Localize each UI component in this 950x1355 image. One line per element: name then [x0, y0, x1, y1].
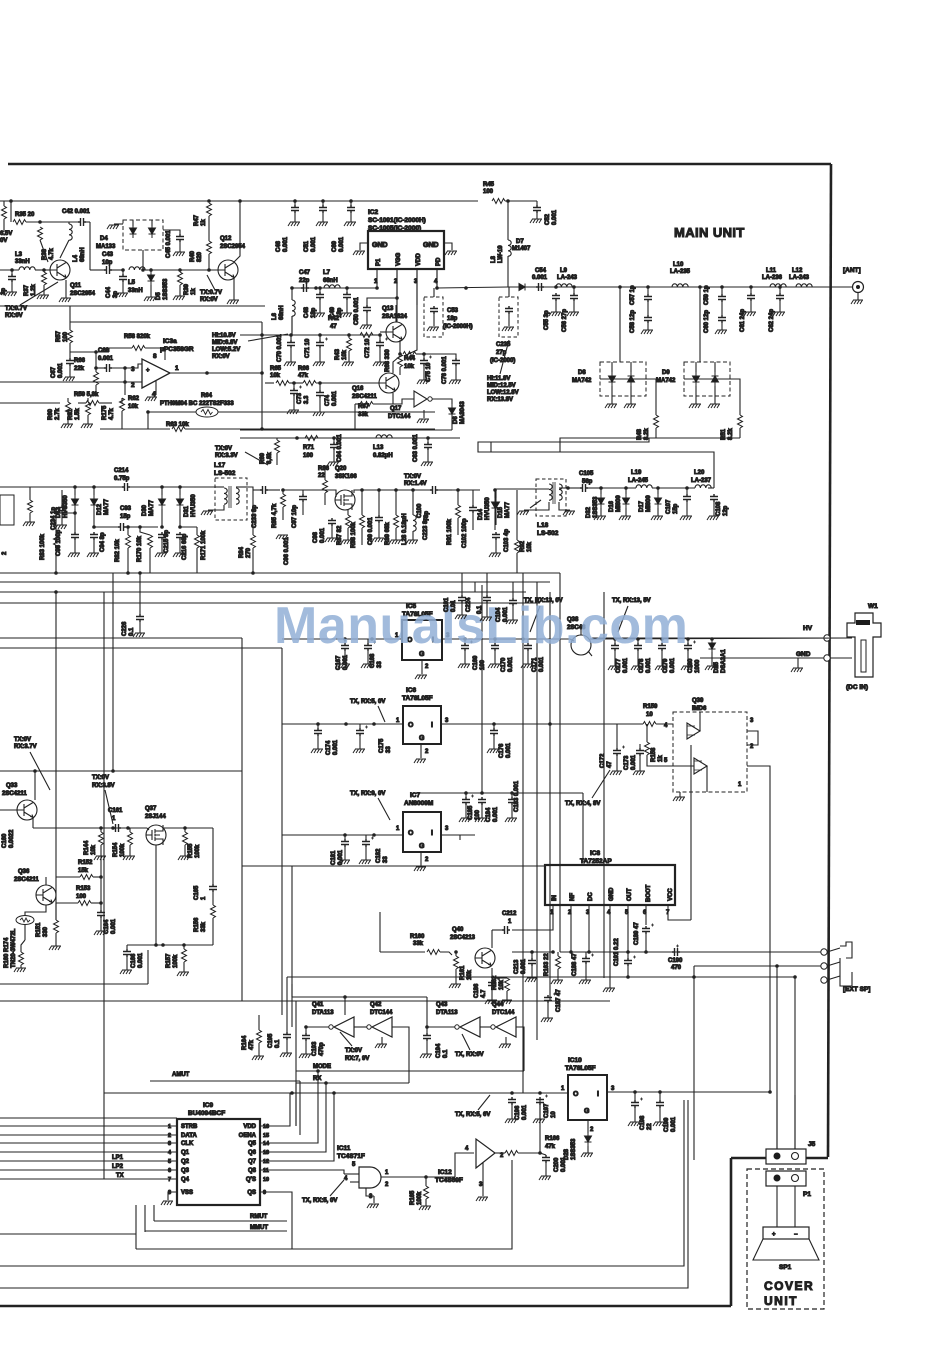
svg-text:R163 22: R163 22: [544, 953, 550, 976]
wire x292 vert: [291, 866, 293, 997]
svg-text:MA77: MA77: [104, 498, 110, 515]
svg-text:HV: HV: [803, 625, 813, 632]
svg-text:1k: 1k: [201, 219, 207, 226]
svg-text:C104: C104: [496, 607, 502, 622]
svg-text:3: 3: [479, 1182, 483, 1188]
wire d8 drop: [619, 287, 621, 362]
ground Q12 emitter: [227, 300, 239, 304]
wire rail y201 left: [0, 200, 277, 202]
svg-text:J5: J5: [808, 1141, 816, 1148]
svg-text:C97 10p: C97 10p: [292, 505, 298, 528]
svg-text:L8: L8: [491, 255, 497, 263]
svg-text:47k: 47k: [545, 1144, 556, 1150]
svg-text:12p: 12p: [723, 505, 729, 516]
svg-text:MAIN UNIT: MAIN UNIT: [674, 225, 745, 240]
svg-text:C169: C169: [473, 655, 479, 670]
svg-text:1: 1: [508, 919, 512, 925]
svg-text:PTH9M04 BC 222TS2F333: PTH9M04 BC 222TS2F333: [160, 401, 234, 407]
wire rail y438: [240, 437, 460, 439]
ground d8 b: [624, 404, 636, 408]
wire x770 vert: [769, 790, 771, 1092]
svg-text:10k: 10k: [342, 349, 348, 360]
svg-text:RX: RX: [313, 1076, 321, 1082]
svg-text:Q4: Q4: [181, 1177, 190, 1183]
connector GND pad: [824, 655, 830, 661]
svg-text:R175: R175: [102, 405, 108, 420]
wire q42 out: [392, 1027, 409, 1083]
svg-text:15p: 15p: [120, 514, 131, 520]
svg-text:MI809: MI809: [646, 495, 652, 512]
svg-text:LS-502: LS-502: [214, 470, 236, 477]
svg-text:1: 1: [396, 718, 400, 724]
svg-text:C43: C43: [102, 252, 114, 258]
svg-text:5: 5: [352, 1162, 356, 1168]
svg-text:10k: 10k: [91, 844, 97, 855]
svg-text:Q42: Q42: [370, 1002, 382, 1008]
svg-text:C181: C181: [331, 850, 337, 865]
wire base q12: [148, 269, 218, 271]
wire ic7 out: [441, 834, 475, 836]
svg-text:TX: TX: [116, 1173, 124, 1179]
svg-text:HI:11.8V: HI:11.8V: [487, 376, 510, 382]
svg-text:47: 47: [607, 761, 613, 768]
svg-text:C188 47: C188 47: [572, 953, 578, 976]
wire ic6 row: [282, 723, 403, 725]
svg-text:DTC144: DTC144: [492, 1010, 515, 1016]
wire ic9 lp inputs: [0, 1160, 177, 1162]
svg-text:6: 6: [168, 1168, 171, 1174]
svg-text:LA-243: LA-243: [789, 275, 810, 281]
svg-text:C101: C101: [444, 597, 450, 612]
svg-text:C48: C48: [304, 306, 310, 318]
svg-text:Q6: Q6: [248, 1150, 257, 1156]
svg-text:C193: C193: [312, 1041, 318, 1056]
svg-text:13: 13: [263, 1150, 269, 1156]
svg-text:C59 1p: C59 1p: [704, 285, 710, 305]
svg-text:Q40: Q40: [452, 927, 464, 933]
wire rail y638b: [0, 637, 242, 639]
svg-text:R151: R151: [36, 922, 42, 937]
wire Q12 collector: [234, 201, 240, 262]
svg-text:1000: 1000: [695, 659, 701, 673]
svg-text:R154: R154: [113, 842, 119, 857]
svg-text:100k: 100k: [417, 1191, 423, 1205]
svg-text:+: +: [772, 1232, 776, 1238]
svg-text:MID:6.8V: MID:6.8V: [212, 340, 237, 346]
svg-text:LS-502: LS-502: [537, 530, 559, 537]
svg-text:R83 100k: R83 100k: [40, 533, 46, 560]
wire r165 node: [425, 1177, 427, 1186]
svg-text:L18: L18: [537, 522, 549, 529]
svg-text:9: 9: [263, 1190, 266, 1196]
svg-text:TX:0V: TX:0V: [92, 775, 109, 781]
svg-text:C213: C213: [514, 959, 520, 974]
svg-text:R160 R174: R160 R174: [4, 937, 10, 968]
svg-text:TA78L05F: TA78L05F: [565, 1065, 596, 1072]
svg-text:470p: 470p: [319, 1042, 325, 1056]
svg-text:22: 22: [318, 473, 325, 479]
svg-text:Q8: Q8: [248, 1168, 257, 1174]
svg-text:MA742: MA742: [572, 378, 592, 384]
svg-text:11: 11: [263, 1168, 269, 1174]
svg-text:R84: R84: [239, 546, 245, 558]
svg-text:0.001: 0.001: [333, 739, 339, 755]
svg-text:33: 33: [377, 661, 383, 668]
wire spk return row: [287, 976, 795, 978]
wire bottom border: [0, 1305, 731, 1308]
svg-text:R158: R158: [651, 747, 657, 762]
svg-text:C69: C69: [332, 240, 338, 252]
wire ic9 qs: [260, 1192, 292, 1249]
svg-text:L5: L5: [128, 280, 136, 286]
svg-text:R170 10k: R170 10k: [137, 535, 143, 562]
svg-text:2: 2: [2, 551, 8, 555]
wire opamp out: [170, 372, 262, 374]
svg-text:LP1: LP1: [112, 1155, 124, 1161]
svg-text:Q36: Q36: [18, 869, 30, 875]
wire bottom loop c: [0, 1100, 684, 1266]
svg-text:22p: 22p: [299, 278, 310, 284]
svg-text:DTC144: DTC144: [370, 1010, 393, 1016]
svg-text:TA78L05F: TA78L05F: [402, 695, 433, 702]
svg-text:4: 4: [344, 1176, 348, 1182]
wire rail y648: [0, 647, 282, 649]
wire y866 rail: [242, 865, 545, 867]
svg-text:C102 100p: C102 100p: [462, 518, 468, 548]
svg-text:R39: R39: [184, 283, 190, 295]
svg-text:0.1: 0.1: [275, 1039, 281, 1048]
wire rail y306: [0, 305, 265, 307]
svg-text:C52: C52: [545, 213, 551, 225]
svg-text:D12: D12: [97, 503, 103, 515]
svg-text:0.001: 0.001: [339, 236, 345, 252]
svg-text:LA-237: LA-237: [691, 478, 712, 484]
svg-text:TX:0.7V: TX:0.7V: [200, 290, 222, 296]
wire q44 out: [516, 1027, 524, 1071]
wire vert x113: [112, 573, 114, 771]
resistor R85b: [28, 500, 33, 513]
svg-text:BOOT: BOOT: [646, 884, 652, 902]
svg-text:TC4S71F: TC4S71F: [337, 1153, 365, 1160]
svg-text:R60: R60: [48, 408, 54, 420]
svg-text:R40: R40: [190, 250, 196, 262]
svg-text:Q17: Q17: [390, 406, 402, 412]
svg-text:GND: GND: [609, 887, 615, 901]
svg-text:47: 47: [330, 324, 337, 330]
svg-text:D16: D16: [609, 500, 615, 512]
svg-text:Q39: Q39: [692, 698, 704, 704]
wire rf main: [508, 286, 831, 288]
svg-text:10k: 10k: [467, 969, 473, 980]
wire vert x550: [549, 592, 551, 1000]
svg-text:C55 3p: C55 3p: [544, 310, 550, 330]
svg-text:LW-19: LW-19: [498, 245, 504, 263]
svg-text:1SS353: 1SS353: [571, 1138, 577, 1160]
svg-text:100k: 100k: [173, 954, 179, 968]
svg-text:MA8043: MA8043: [460, 401, 466, 424]
svg-text:D17: D17: [639, 500, 645, 512]
svg-text:RX:3.8V: RX:3.8V: [92, 783, 115, 789]
wire y1004 rail: [0, 1000, 610, 1002]
wire bottom loop a: [0, 1233, 136, 1235]
svg-text:C200: C200: [554, 1157, 560, 1172]
speaker SP1: [763, 1227, 809, 1239]
wire bottom loop b: [135, 1205, 137, 1249]
svg-text:2: 2: [425, 664, 429, 670]
svg-text:L12: L12: [792, 268, 803, 274]
svg-text:1: 1: [561, 1086, 565, 1092]
svg-text:2SC4211: 2SC4211: [14, 877, 39, 883]
svg-text:0.75p: 0.75p: [114, 476, 130, 482]
svg-text:Q37: Q37: [145, 806, 157, 812]
wire HV line: [592, 637, 852, 639]
resistor R160 82k: [19, 952, 24, 965]
svg-text:0.001: 0.001: [552, 209, 558, 225]
svg-text:2SC2954: 2SC2954: [220, 244, 246, 250]
svg-text:C175: C175: [379, 738, 385, 753]
svg-text:C182: C182: [376, 848, 382, 863]
svg-text:0.82μH: 0.82μH: [373, 453, 393, 459]
svg-text:0.001: 0.001: [111, 918, 117, 934]
svg-text:C197: C197: [544, 1103, 550, 1118]
svg-text:1: 1: [112, 816, 116, 822]
wire q39 out wires: [747, 731, 758, 745]
svg-text:C61 24p: C61 24p: [740, 309, 746, 332]
svg-text:μPC358GR: μPC358GR: [160, 346, 194, 353]
svg-text:0.001: 0.001: [493, 806, 499, 822]
wire rail y487: [0, 486, 122, 488]
wire ic8 pin6 boot: [645, 905, 647, 925]
wire ic8 pin4 gnd: [609, 905, 611, 978]
svg-text:16: 16: [263, 1124, 269, 1130]
svg-text:L11: L11: [766, 268, 777, 274]
svg-text:VCC: VCC: [668, 888, 674, 901]
svg-text:C105: C105: [579, 471, 594, 477]
svg-text:3: 3: [369, 1194, 373, 1200]
svg-text:4: 4: [465, 1146, 469, 1152]
svg-text:C161: C161: [108, 808, 123, 814]
wire y793 row: [420, 792, 583, 794]
svg-text:D9: D9: [662, 370, 670, 376]
svg-text:C50 0.001: C50 0.001: [354, 297, 360, 325]
svg-text:TX, RX:9, 0V: TX, RX:9, 0V: [350, 791, 385, 797]
svg-text:68nH: 68nH: [279, 305, 285, 320]
svg-text:VDD: VDD: [416, 253, 422, 266]
svg-text:2: 2: [131, 382, 135, 389]
svg-text:IC10: IC10: [568, 1057, 582, 1064]
wire ic8 pin1: [512, 905, 553, 930]
svg-text:DTA113: DTA113: [436, 1010, 458, 1016]
svg-text:3: 3: [445, 826, 449, 832]
svg-text:Q20: Q20: [335, 466, 347, 472]
svg-text:15k: 15k: [78, 868, 89, 874]
wire extsp line1: [560, 951, 822, 953]
svg-text:0.001: 0.001: [532, 275, 548, 281]
svg-text:R82 10k: R82 10k: [115, 539, 121, 562]
svg-text:R68 330: R68 330: [385, 349, 391, 372]
svg-text:MA742: MA742: [656, 378, 676, 384]
svg-text:R44: R44: [404, 356, 416, 362]
svg-text:Q33: Q33: [6, 783, 18, 789]
svg-text:O: O: [408, 830, 414, 837]
svg-text:Q5: Q5: [248, 1141, 257, 1147]
svg-text:IC6: IC6: [406, 687, 417, 694]
svg-text:22k: 22k: [74, 366, 85, 372]
svg-text:C176: C176: [499, 743, 505, 758]
svg-text:Q11: Q11: [70, 283, 82, 289]
svg-text:C93: C93: [120, 506, 132, 512]
svg-text:820: 820: [197, 251, 203, 262]
wire j5 lead long2: [794, 978, 796, 1149]
wire vert x523: [522, 573, 524, 1093]
svg-text:TX:0V: TX:0V: [14, 737, 31, 743]
svg-text:C215 9p: C215 9p: [164, 530, 170, 553]
svg-text:RMUT: RMUT: [250, 1214, 268, 1220]
svg-text:10p: 10p: [102, 260, 113, 266]
svg-text:0.001: 0.001: [521, 958, 527, 974]
svg-text:0.1: 0.1: [443, 1049, 449, 1058]
svg-text:100k: 100k: [120, 843, 126, 857]
wire vert x56: [55, 592, 57, 920]
svg-text:RX:3.7V: RX:3.7V: [14, 744, 37, 750]
svg-text:L17: L17: [214, 462, 226, 469]
svg-text:470: 470: [671, 965, 682, 971]
svg-text:C183 0.001: C183 0.001: [514, 780, 520, 812]
svg-text:3: 3: [168, 1141, 171, 1147]
svg-text:SP1: SP1: [779, 1264, 792, 1271]
svg-text:LA-245: LA-245: [628, 478, 649, 484]
svg-text:D14: D14: [478, 508, 484, 520]
svg-text:C107: C107: [666, 499, 672, 514]
svg-text:R92: R92: [520, 540, 526, 552]
wire ic9 q7: [260, 1093, 334, 1161]
svg-text:3.3: 3.3: [304, 395, 310, 404]
svg-text:2: 2: [425, 749, 429, 755]
wire ic10 input line: [104, 1092, 568, 1094]
svg-text:R37: R37: [24, 284, 30, 296]
svg-text:COVER: COVER: [764, 1279, 814, 1293]
svg-text:C233 8p: C233 8p: [252, 505, 258, 528]
svg-text:0.001: 0.001: [332, 390, 338, 406]
wire y527 link: [94, 526, 118, 528]
resistor left edge frag: [2, 206, 7, 219]
svg-text:0.001: 0.001: [58, 362, 64, 378]
svg-text:(IC-2000H): (IC-2000H): [443, 324, 473, 330]
svg-text:0.001: 0.001: [311, 236, 317, 252]
wire y430 row: [240, 429, 452, 431]
svg-text:C184: C184: [486, 807, 492, 822]
connector P1: [766, 1171, 806, 1186]
svg-text:NF: NF: [570, 893, 576, 901]
wire bus y452: [491, 452, 714, 488]
svg-text:L9: L9: [560, 268, 568, 274]
wire vert x537: [536, 582, 538, 1040]
svg-text:C174: C174: [326, 740, 332, 755]
gate IC12 TC4S69F: [476, 1139, 495, 1168]
svg-text:G: G: [584, 1108, 590, 1115]
ground ant: [851, 300, 863, 304]
svg-text:C177: C177: [616, 658, 622, 673]
svg-text:0.001: 0.001: [283, 236, 289, 252]
svg-text:BU4094BCF: BU4094BCF: [188, 1110, 225, 1117]
svg-text:MA77: MA77: [505, 501, 511, 518]
svg-text:100: 100: [63, 331, 69, 342]
svg-text:D8: D8: [578, 370, 586, 376]
svg-text:DTA113: DTA113: [312, 1010, 334, 1016]
wire ic6 out: [441, 723, 620, 725]
svg-text:0.001: 0.001: [623, 657, 629, 673]
wire y984 box bottom: [0, 983, 148, 985]
svg-text:R59 5,8k: R59 5,8k: [74, 392, 99, 398]
svg-text:2: 2: [425, 857, 429, 863]
svg-text:C75 10: C75 10: [426, 362, 432, 382]
svg-text:R65: R65: [270, 366, 282, 372]
svg-text:47k: 47k: [249, 1039, 255, 1050]
svg-text:Q43: Q43: [436, 1002, 448, 1008]
svg-text:C96 0.001: C96 0.001: [284, 537, 290, 565]
svg-text:G: G: [419, 843, 425, 850]
wire vert x604: [603, 592, 605, 978]
ground IC2 left: [360, 243, 368, 250]
svg-text:I: I: [597, 1091, 599, 1098]
svg-text:Q41: Q41: [312, 1002, 324, 1008]
wire rail y573: [0, 572, 560, 574]
svg-text:TX:0.7V: TX:0.7V: [5, 306, 27, 312]
svg-text:10k: 10k: [499, 979, 505, 990]
svg-text:R144: R144: [84, 840, 90, 855]
svg-text:33k: 33k: [413, 941, 424, 947]
connector ANT: [853, 282, 864, 293]
svg-text:0.001: 0.001: [670, 657, 676, 673]
svg-text:IC2: IC2: [368, 209, 379, 216]
svg-text:3: 3: [131, 366, 135, 373]
svg-text:P1: P1: [803, 1191, 811, 1198]
svg-text:[ANT]: [ANT]: [843, 267, 861, 274]
connector EXT SP jack: [840, 942, 852, 986]
svg-text:R35 20: R35 20: [15, 212, 35, 218]
svg-text:R171 100k: R171 100k: [201, 530, 207, 560]
svg-text:12: 12: [263, 1159, 269, 1165]
svg-text:R160: R160: [410, 934, 425, 940]
svg-text:C187 47: C187 47: [556, 989, 562, 1012]
connector HV pad: [824, 635, 830, 641]
svg-text:R64: R64: [201, 393, 213, 399]
wire d9 drop: [699, 287, 701, 362]
svg-text:100: 100: [76, 894, 87, 900]
svg-text:R69: R69: [260, 452, 266, 464]
wire hv row right: [590, 638, 852, 639]
svg-text:14: 14: [263, 1141, 270, 1147]
wire rail to C52: [505, 200, 537, 202]
svg-text:M1407: M1407: [512, 246, 531, 252]
svg-text:QS: QS: [247, 1190, 256, 1196]
node junction dots rf: [618, 285, 622, 289]
wire vert x104: [103, 592, 105, 1179]
svg-text:R66: R66: [298, 366, 310, 372]
wire ic11 out: [381, 1176, 455, 1178]
connector extsp border pads: [821, 949, 827, 955]
wire p1-sp1: [776, 1186, 778, 1227]
svg-text:33: 33: [383, 856, 389, 863]
svg-text:270: 270: [246, 547, 252, 558]
wire rail y603: [0, 602, 540, 604]
svg-text:2SC2954: 2SC2954: [70, 291, 96, 297]
wire IC2 pin leads: [376, 269, 378, 287]
svg-text:PD: PD: [436, 257, 442, 266]
svg-text:10k: 10k: [270, 373, 281, 379]
svg-text:C45 0.001: C45 0.001: [166, 230, 172, 258]
svg-text:C214: C214: [114, 468, 129, 474]
